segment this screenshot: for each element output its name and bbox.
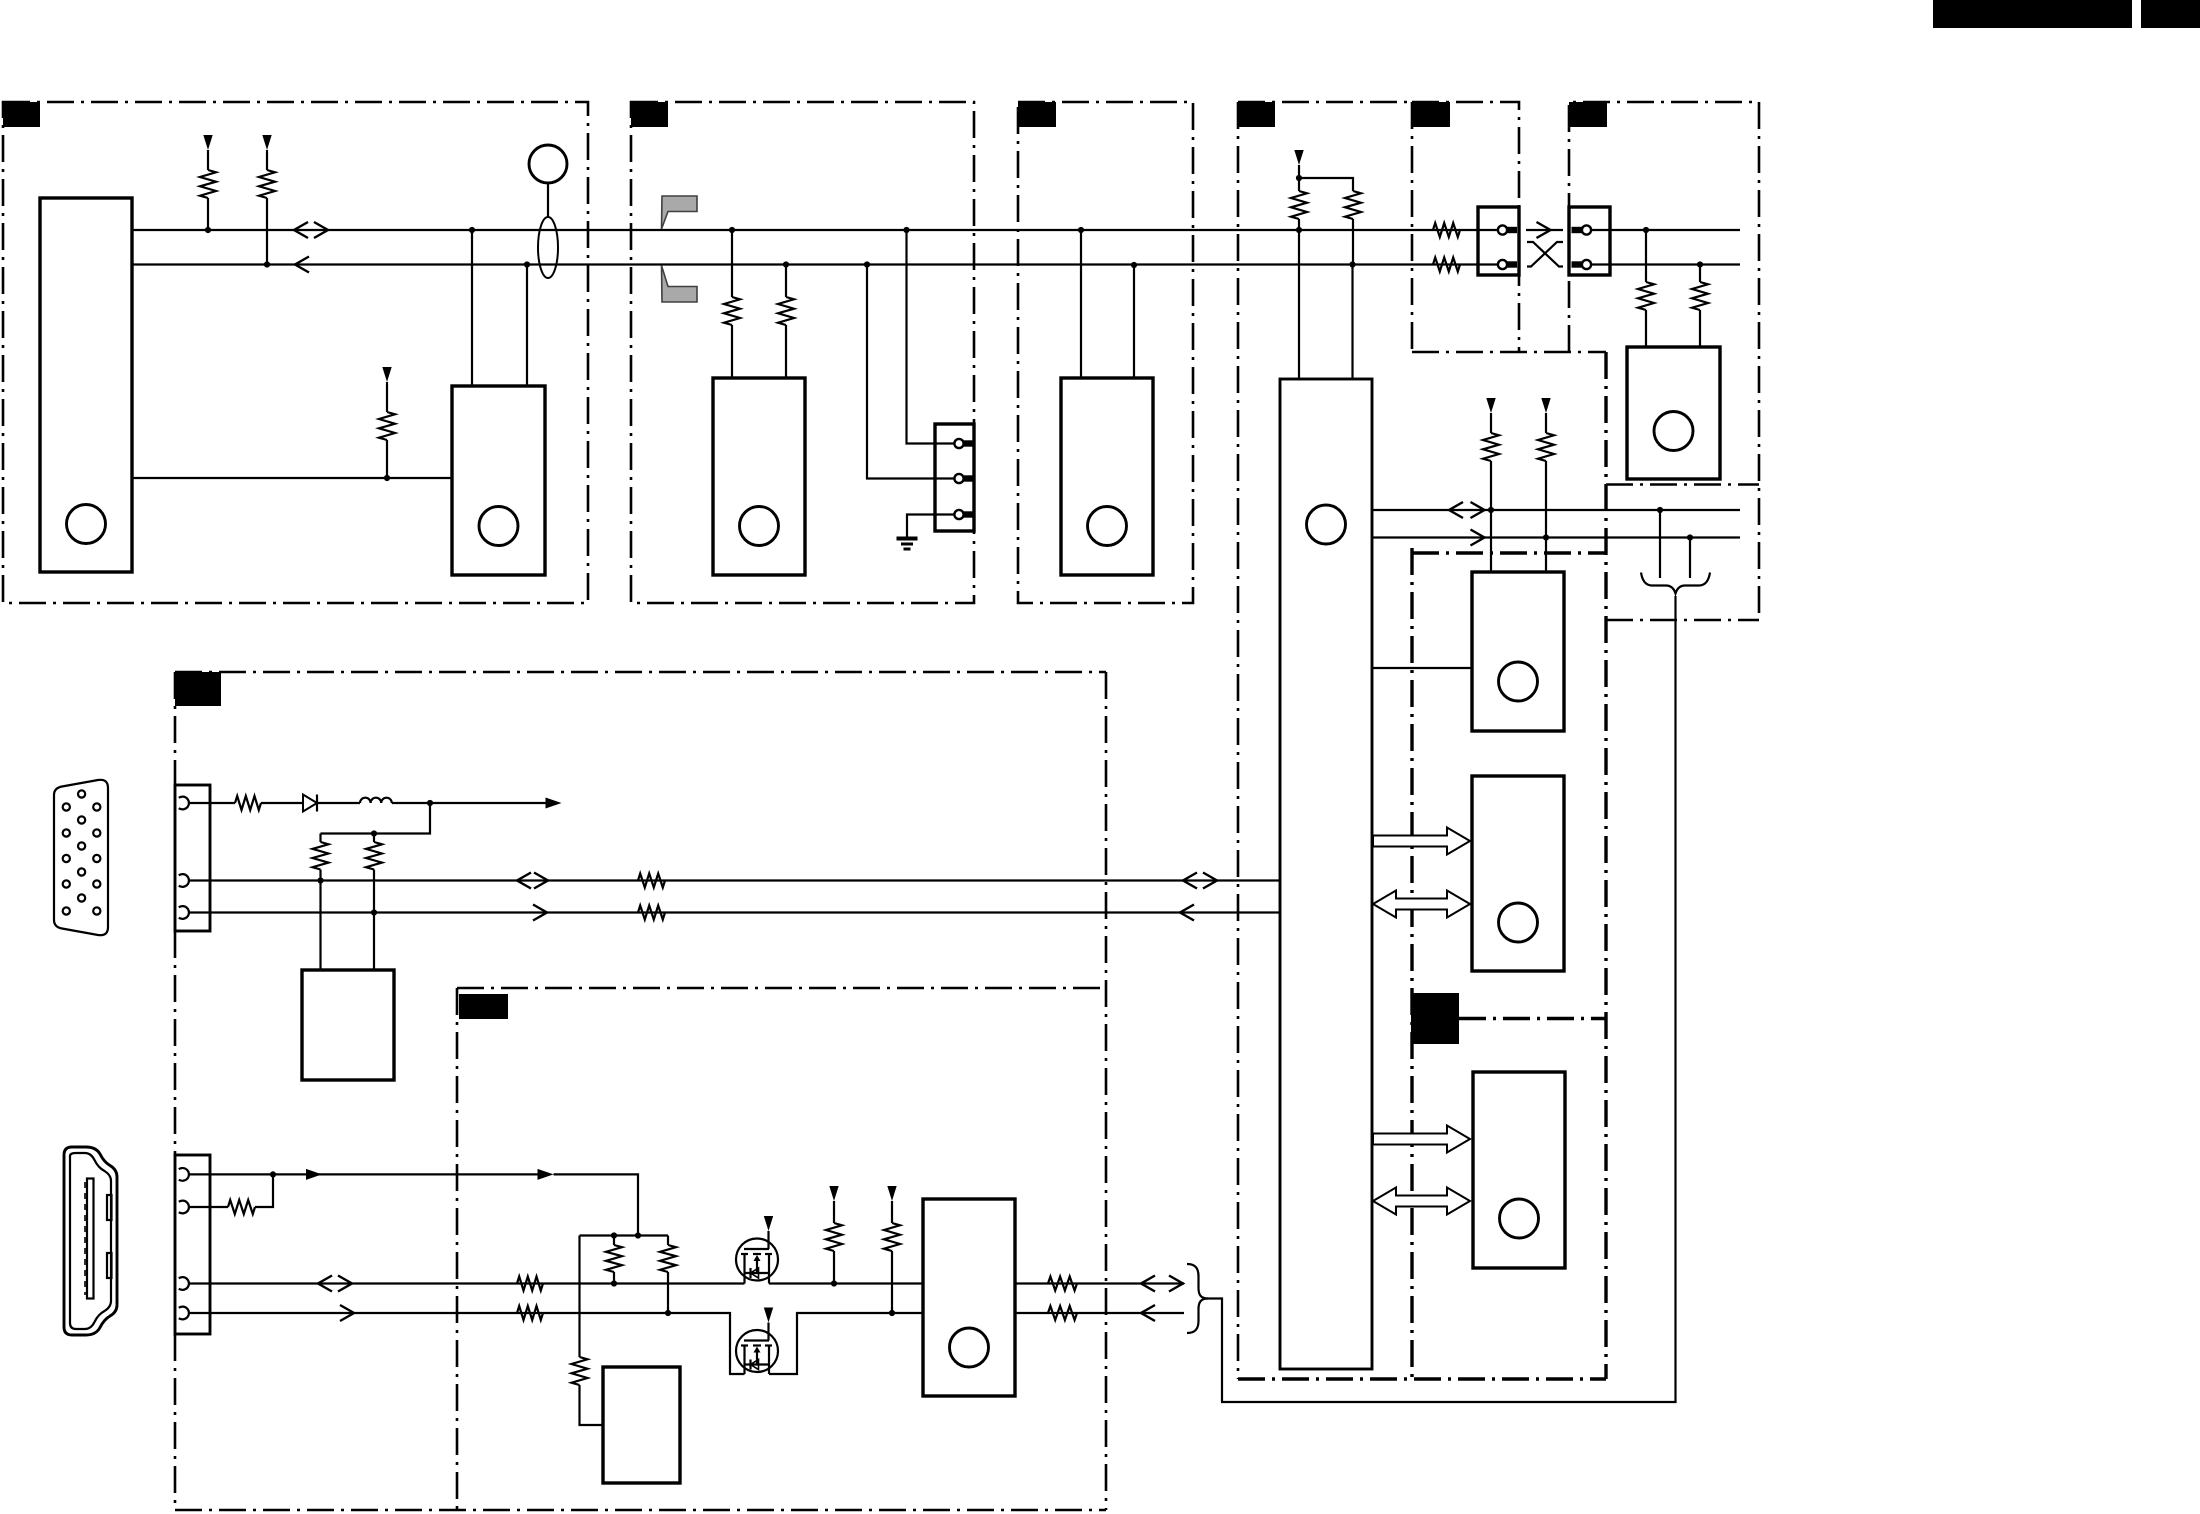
board outline boxH left border (dash-dot)	[456, 988, 459, 1510]
CN6 pin1 half-circle	[179, 1168, 189, 1181]
pull-up resistor R25	[826, 1223, 842, 1251]
HDMI pin header block CN6	[175, 1155, 210, 1334]
lead R15 top	[319, 834, 321, 843]
series resistor R14	[235, 796, 261, 810]
lead A7 to Q1	[767, 1231, 769, 1249]
ferrite bead ellipse over bus	[538, 217, 558, 278]
resistor R22	[572, 1357, 588, 1385]
under-brace grouping netA/netB	[1641, 573, 1710, 594]
wire HDMI SDA east	[1015, 1312, 1184, 1314]
power arrow A3	[382, 367, 391, 382]
board label boxG (redacted)	[175, 672, 221, 706]
junction netA/R12	[1488, 507, 1494, 513]
junction net1/R10	[1643, 227, 1649, 233]
CN1 reference circle	[67, 505, 106, 544]
power arrow A5	[1486, 398, 1495, 413]
wire HDMI DDC SCL mid	[769, 1282, 923, 1284]
wire net1 to CN2 pin1	[907, 230, 955, 444]
wire SDA to EEPROM U9	[373, 913, 375, 971]
board outline boxG left border segment 1 (dash-dot)	[174, 672, 177, 785]
lead R3 to net3	[386, 440, 388, 478]
CN6 pin3 half-circle	[179, 1277, 189, 1290]
wire HDMI DDC SCL west (y=1283.5)	[189, 1282, 745, 1284]
left arrow on HDMI SDA east	[1141, 1305, 1155, 1321]
cable wire between connectors (net1)	[1526, 229, 1563, 231]
VGA pin header block CN5	[175, 785, 210, 931]
junction net2/R5	[783, 261, 789, 267]
IC U3 (box3)	[1061, 378, 1153, 575]
MOSFET Q1 (SCL switch)	[736, 1239, 778, 1284]
wire HDMI SCL east	[1015, 1282, 1184, 1284]
lead circle to bead	[547, 183, 549, 217]
VGA pin hole 7	[78, 816, 85, 823]
U7 reference circle	[1499, 903, 1538, 942]
lead R7 to net2	[1352, 219, 1354, 265]
pull-up resistor R12	[1483, 433, 1499, 461]
termination resistor R5	[778, 297, 794, 325]
wire netB MCU bus lower (y=537.5)	[1372, 536, 1740, 538]
bidirectional arrow on HDMI SCL west left head	[318, 1276, 332, 1292]
wire HDMI pin2 to R19	[189, 1206, 228, 1208]
junction net2 drop to U1	[524, 261, 530, 267]
divider resistor R16	[366, 842, 382, 870]
pull-up resistor R1	[200, 170, 216, 198]
lead R10 to U5	[1645, 310, 1647, 347]
left arrow on SDA east	[1180, 905, 1194, 921]
U6 reference circle	[1499, 662, 1538, 701]
pull-up resistor R13	[1538, 433, 1554, 461]
series resistor R8 on net1	[1433, 223, 1460, 237]
board outline box4 left border (dash-dot)	[1237, 102, 1240, 1379]
junction HDMI SDA pull-up	[889, 1310, 895, 1316]
U11 reference circle	[950, 1328, 989, 1367]
junction net1 to U3	[1078, 227, 1084, 233]
junction HDMI5V/R19	[270, 1171, 276, 1177]
CN3 pin2 contact circle	[1498, 260, 1507, 269]
power arrow A6	[1541, 398, 1550, 413]
series resistor R9 on net2	[1433, 258, 1460, 272]
U2 reference circle	[740, 507, 779, 546]
shared border x=1412 upper segment (dash-dot)	[1411, 102, 1414, 352]
series resistor R18 on SDA	[638, 906, 665, 920]
lead R6 to net1	[1298, 219, 1300, 230]
junction SDA/R21	[665, 1310, 671, 1316]
block arrow MCU to U8	[1373, 1126, 1470, 1153]
CN4 pin1 contact bar	[1572, 227, 1583, 233]
direction arrow on cable	[1537, 222, 1551, 238]
junction net3/R3	[384, 475, 390, 481]
lead R26 to SDA	[891, 1251, 893, 1313]
board outline box3 (dash-dot)	[1018, 102, 1193, 603]
filled arrow VGA 5V out	[546, 798, 562, 809]
lead R20 top	[613, 1236, 615, 1246]
VGA pin hole 11	[93, 803, 100, 810]
wire HDMI DDC SDA mid	[769, 1313, 923, 1374]
junction netB/R13	[1543, 534, 1549, 540]
page header redacted title block	[1933, 0, 2132, 28]
lead of R1	[207, 150, 209, 170]
series resistor R27	[1048, 1277, 1077, 1291]
wire net2 lower bus (y=264.5)	[132, 263, 1498, 265]
power arrow A1	[203, 135, 212, 150]
board label box2 (redacted)	[631, 102, 668, 127]
board outline boxH top border (dash-dot)	[457, 987, 1106, 990]
filled arrow HDMI 5V a	[306, 1169, 322, 1180]
CN2 pin3 contact bar	[964, 511, 973, 517]
inductor L1	[360, 798, 392, 803]
lead A4 to R6/R7 branch	[1298, 165, 1300, 191]
connector CN1 (tall input connector)	[40, 198, 132, 572]
junction SCL/R20	[611, 1280, 617, 1286]
bidirectional arrow on netA left head	[1449, 502, 1463, 518]
EEPROM U9 (VGA DDC)	[302, 970, 394, 1080]
wire net1 after CN4	[1591, 229, 1740, 231]
right arrow on HDMI SDA west	[340, 1305, 354, 1321]
bidirectional arrow on netA right head	[1471, 502, 1485, 518]
wire netA drop to brace	[1659, 510, 1661, 578]
lead A10 to R26	[891, 1201, 893, 1223]
bidirectional arrow on SCL east left head	[1183, 873, 1197, 889]
junction net2 to CN2	[864, 261, 870, 267]
wire net1 to U1 pin	[471, 230, 473, 386]
board outline boxG bottom border (dash-dot)	[175, 1509, 1106, 1512]
crossover cable line B	[1527, 242, 1563, 267]
connector CN4 body	[1569, 207, 1610, 275]
bidirectional arrow on SCL west left head	[517, 873, 531, 889]
VGA pin hole 15	[93, 907, 100, 914]
CN6 pin2 half-circle	[179, 1201, 189, 1214]
HDMI contact tab lower	[107, 1253, 112, 1278]
lead A6 to R13	[1545, 413, 1547, 433]
wire net2 to MCU	[1351, 265, 1353, 380]
pull-up resistor R3	[379, 412, 395, 440]
board outline box4 top border (dash-dot)	[1238, 101, 1412, 104]
bidirectional arrow on net1 left head	[294, 222, 308, 238]
wire MCU to U6 left	[1372, 667, 1472, 669]
board label box3 (redacted)	[1018, 102, 1056, 127]
MOSFET Q2 (SDA switch)	[736, 1330, 778, 1374]
wire bias to R22	[578, 1236, 580, 1358]
lead R11 top	[1699, 265, 1701, 283]
wire VGA5V drop	[321, 803, 431, 834]
series resistor R24 on HDMI SDA	[517, 1306, 543, 1320]
junction net1/R1	[205, 227, 211, 233]
diode D1	[303, 795, 317, 812]
VGA pin hole 8	[78, 842, 85, 849]
junction net2/R7	[1349, 261, 1355, 267]
wire VGA DDC SDA (y=912.5)	[189, 911, 1280, 913]
series resistor R19	[228, 1200, 255, 1214]
VGA pin hole 13	[93, 855, 100, 862]
VGA pin hole 4	[63, 880, 70, 887]
CN2 pin2 contact bar	[964, 475, 973, 481]
bidirectional arrow on HDMI SCL east right head	[1169, 1276, 1183, 1292]
lead R11 to U5	[1699, 310, 1701, 347]
junction bias/R20	[611, 1232, 617, 1238]
pull-up resistor R7	[1345, 191, 1361, 219]
U4 reference circle	[1307, 505, 1346, 544]
IC U7 (box7 middle)	[1472, 776, 1564, 971]
junction net2 to U3	[1131, 262, 1137, 268]
pull-up resistor R21	[660, 1245, 676, 1272]
wire VGA pin1 net	[189, 802, 235, 804]
bidirectional arrow on HDMI SCL west right head	[338, 1276, 352, 1292]
lead R1 to net1	[207, 198, 209, 230]
bias rail wire	[580, 1234, 669, 1236]
wire netA to U6	[1490, 510, 1492, 572]
junction HDMI SCL pull-up	[831, 1280, 837, 1286]
wire netA MCU bus upper (y=510)	[1372, 509, 1740, 511]
wire CN2 pin3 to ground	[907, 515, 954, 539]
IC U11 HDMI level shifter	[923, 1199, 1015, 1396]
VGA pin hole 14	[93, 880, 100, 887]
junction net1 to CN2	[903, 227, 909, 233]
VGA D-sub 15 connector shell	[54, 780, 108, 935]
board outline box4/box7 bottom border (dash-dot)	[1238, 1377, 1606, 1380]
IC U2 (box2 receiver)	[713, 378, 805, 575]
CN5 pin2 half-circle	[179, 874, 189, 887]
junction SDA/R16	[371, 909, 377, 915]
wire HDMI 5V (pin1)	[189, 1173, 538, 1175]
board label boxH (redacted)	[459, 994, 508, 1019]
bidirectional arrow on HDMI SCL east left head	[1141, 1276, 1155, 1292]
wire R22 to EEPROM U10	[580, 1385, 604, 1425]
CN3 pin1 contact bar	[1507, 227, 1517, 233]
shared border x=1412 lower segment (dash-dot)	[1410, 548, 1413, 1379]
wire HDMI 5V continue	[554, 1174, 639, 1235]
bidirectional arrow on SCL west right head	[534, 873, 548, 889]
lead R21 to SDA	[667, 1272, 669, 1313]
connector CN3 body	[1478, 207, 1519, 275]
CN6 pin4 half-circle	[179, 1307, 189, 1320]
lead R5 to U2	[785, 325, 787, 378]
board outline boxG left border segment 2 (dash-dot)	[174, 931, 177, 1155]
bidirectional arrow on net1 right head	[314, 222, 328, 238]
junction VGA5V	[427, 800, 433, 806]
wire R14 to D1	[261, 802, 303, 804]
wire net2 to U3	[1133, 265, 1135, 378]
CN3 pin2 contact bar	[1507, 261, 1517, 267]
EEPROM U10 (HDMI)	[603, 1367, 680, 1483]
board label box8 (redacted)	[1411, 993, 1459, 1044]
lead A9 to R25	[833, 1201, 835, 1223]
series resistor R23 on HDMI SCL	[517, 1277, 543, 1291]
wire D1 to L1	[318, 802, 361, 804]
power arrow A2	[262, 135, 271, 150]
junction bias/5V	[635, 1232, 641, 1238]
lead R5 top	[785, 265, 787, 298]
termination resistor R11	[1692, 282, 1708, 310]
HDMI tongue dashed pin row	[84, 1182, 86, 1295]
junction R6/R7 branch	[1296, 175, 1302, 181]
board label box1 (redacted)	[3, 102, 40, 127]
pull-up resistor R20	[606, 1245, 622, 1272]
HDMI contact tab upper	[107, 1195, 112, 1220]
crossover cable line A	[1527, 242, 1563, 267]
junction net1/R6	[1296, 227, 1302, 233]
pull-up resistor R26	[884, 1223, 900, 1251]
board label box4 (redacted)	[1238, 102, 1275, 127]
wire R19 to 5V net	[255, 1174, 273, 1207]
pull-up resistor R6	[1291, 191, 1307, 219]
VGA pin hole 10	[78, 894, 85, 901]
branch wire to R7	[1299, 178, 1353, 191]
wire net3 CN1 to U1	[132, 477, 452, 479]
VGA pin hole 9	[78, 868, 85, 875]
U5 reference circle	[1654, 412, 1693, 451]
filled arrow HDMI 5V b	[538, 1169, 554, 1180]
wire netB drop to brace	[1689, 538, 1691, 579]
lead R12 to netA	[1490, 461, 1492, 510]
page header redacted page-number block	[2141, 0, 2200, 28]
IC U4 MCU (tall)	[1280, 379, 1372, 1369]
board outline box8 top border (dash-dot)	[1459, 1017, 1606, 1020]
right arrow on netB	[1471, 530, 1485, 546]
U8 reference circle	[1500, 1199, 1539, 1238]
connector CN2 body	[935, 424, 974, 531]
board outline boxG left border segment 3 (dash-dot)	[174, 1334, 177, 1510]
wire VGA DDC SCL (y=880.5)	[189, 879, 1280, 881]
left arrow on net2	[295, 257, 309, 273]
board outline box5 bottom border (dash-dot)	[1412, 351, 1606, 354]
junction netA to cable brace	[1657, 507, 1663, 513]
right arrow on SDA west	[533, 905, 547, 921]
wire net2 to CN2 pin2	[867, 265, 954, 479]
junction net1/R4	[729, 227, 735, 233]
signal flag marker on net2	[662, 266, 698, 303]
board outline box2 (dash-dot)	[631, 102, 974, 603]
board outline box6 (dash-dot)	[1569, 102, 1759, 620]
junction net2/R2	[264, 261, 270, 267]
junction net2/R11	[1697, 261, 1703, 267]
IC U6 oscillator (box7 top)	[1472, 572, 1564, 731]
HDMI centre tongue slot	[87, 1179, 94, 1299]
right brace grouping HDMI DDC pair	[1187, 1264, 1208, 1333]
double block arrow MCU/U8	[1373, 1188, 1470, 1215]
wire net1 to U3	[1080, 230, 1082, 378]
power arrow A8	[764, 1308, 773, 1323]
CN2 pin1 contact bar	[964, 440, 973, 446]
termination resistor R10	[1638, 282, 1654, 310]
U3 reference circle	[1088, 507, 1127, 546]
CN5 pin3 half-circle	[179, 906, 189, 919]
wire net1 upper bus (y=230)	[132, 229, 1498, 231]
CN2 pin1 contact circle	[954, 439, 963, 448]
junction net1 drop to U1	[469, 227, 475, 233]
wire net1 to MCU	[1298, 230, 1300, 379]
lead R4 to U2	[731, 325, 733, 378]
lead A5 to R12	[1490, 413, 1492, 433]
IC U1 (box1 right)	[452, 386, 545, 575]
combined DDC cable run	[1207, 596, 1676, 1402]
board label box5 (redacted)	[1412, 102, 1450, 127]
HDMI connector shell outer	[64, 1147, 117, 1335]
block arrow MCU to U7	[1373, 828, 1470, 855]
wire SCL to EEPROM U9	[319, 881, 321, 971]
ground symbol	[897, 537, 918, 541]
board outline box7 right border x=1606 (dash-dot)	[1604, 352, 1607, 1379]
double block arrow MCU/U7	[1373, 891, 1470, 918]
junction divider	[371, 830, 377, 836]
board outline box1 (dash-dot)	[3, 102, 588, 603]
lead R16 top	[373, 834, 375, 843]
lead R15 to DDC SCL	[319, 870, 321, 881]
CN4 pin1 contact circle	[1582, 225, 1591, 234]
lead of R3	[386, 382, 388, 412]
CN4 pin2 contact circle	[1582, 260, 1591, 269]
CN5 pin1 half-circle	[179, 797, 189, 810]
power arrow A10	[887, 1186, 896, 1201]
VGA pin hole 2	[63, 829, 70, 836]
lead R20 to SCL	[613, 1272, 615, 1284]
board label box6 (redacted)	[1569, 102, 1607, 127]
lead R2 to net2	[266, 198, 268, 265]
IC U8 (box8)	[1473, 1072, 1565, 1268]
junction netB to cable brace	[1687, 534, 1693, 540]
lead R13 to netB	[1545, 461, 1547, 538]
lead R16 to DDC SDA	[373, 870, 375, 913]
wire net2 after CN4	[1591, 263, 1740, 265]
board outline box5 (dash-dot)	[1412, 102, 1519, 352]
wire net2 to U1 pin	[526, 265, 528, 387]
wire netB to U6	[1545, 538, 1547, 573]
board outline region E bottom border (dash-dot)	[1606, 619, 1759, 622]
CN2 pin3 contact circle	[954, 510, 963, 519]
wire HDMI DDC SDA west (y=1313)	[189, 1313, 745, 1374]
bidirectional arrow on SCL east right head	[1203, 873, 1217, 889]
IC U5 (box6)	[1627, 347, 1720, 479]
board outline boxG top border (dash-dot)	[175, 671, 1106, 674]
lead R25 to SCL	[833, 1251, 835, 1284]
lead R10 top	[1645, 230, 1647, 282]
power arrow A9	[829, 1186, 838, 1201]
CN2 pin2 contact circle	[954, 474, 963, 483]
VGA pin hole 12	[93, 829, 100, 836]
termination resistor R4	[724, 297, 740, 325]
series resistor R28	[1048, 1306, 1077, 1320]
signal flag marker on net1	[662, 196, 698, 229]
U1 reference circle	[479, 507, 518, 546]
power arrow A4	[1294, 150, 1303, 165]
divider resistor R15	[313, 842, 329, 870]
wire L1 to arrow	[392, 802, 546, 804]
VGA pin hole 3	[63, 855, 70, 862]
lead A8 to Q2	[767, 1323, 769, 1341]
lead of R2	[266, 150, 268, 170]
CN3 pin1 contact circle	[1498, 225, 1507, 234]
ferrite bead label circle	[529, 145, 567, 183]
series resistor R17 on SCL	[638, 874, 665, 888]
board outline boxG right border (dash-dot)	[1105, 672, 1108, 1510]
pull-up resistor R2	[259, 170, 275, 198]
lead R21 top	[667, 1236, 669, 1246]
VGA pin hole 6	[78, 790, 85, 797]
CN4 pin2 contact bar	[1572, 261, 1583, 267]
board outline box6 bottom border (dash-dot)	[1606, 483, 1759, 486]
board outline box7 top border (dash-dot)	[1412, 551, 1606, 554]
VGA pin hole 5	[63, 907, 70, 914]
junction SCL/R15	[317, 877, 323, 883]
VGA pin hole 1	[63, 803, 70, 810]
lead R4 top	[731, 230, 733, 297]
power arrow A7	[764, 1216, 773, 1231]
HDMI connector shell inner	[70, 1153, 111, 1329]
